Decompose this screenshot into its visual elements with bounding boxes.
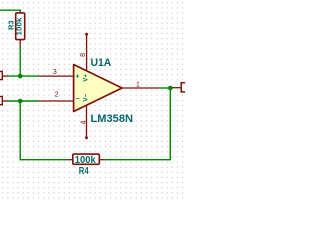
junction C [168,86,173,91]
connector box left bottom [0,97,8,105]
op-amp U1 pin 1 (output) [122,87,159,89]
junction B [18,99,23,104]
op-amp U1 pin 3 [39,75,74,77]
svg-text:1: 1 [136,82,140,89]
resistor R4 [68,154,105,164]
svg-text:U1A: U1A [91,57,112,69]
connector box left top [0,71,8,79]
wire: R3 bottom to junction A [19,46,21,76]
svg-text:4: 4 [80,121,87,125]
op-amp U1 pin 8 (V+) [85,33,88,71]
wire: pin 1 to right edge [159,87,173,89]
svg-text:V+: V+ [83,74,90,82]
svg-text:100k: 100k [15,18,24,36]
wire: horizontal from left edge to R3 top [0,10,20,11]
svg-text:100k: 100k [75,154,96,166]
wire: junction C down to R4 right [105,88,171,160]
svg-text:LM358N: LM358N [91,113,134,125]
op-amp U1 pin 4 (V-) [85,105,88,139]
op-amp U1A triangle [74,65,122,112]
svg-text:−: − [75,96,79,103]
svg-text:+: + [75,74,79,81]
svg-text:2: 2 [55,91,59,98]
connector box right [173,83,191,92]
wire: left box to pin 2 [8,100,39,102]
wire: left box to pin 3 [8,75,39,77]
junction A [18,74,23,79]
resistor R3 [16,11,25,47]
svg-text:V−: V− [83,93,90,101]
op-amp U1 pin 2 [39,100,74,102]
svg-text:3: 3 [53,69,57,76]
svg-text:R4: R4 [79,166,89,177]
wire: junction B down and right to R4 [20,101,68,160]
svg-text:8: 8 [80,53,87,57]
